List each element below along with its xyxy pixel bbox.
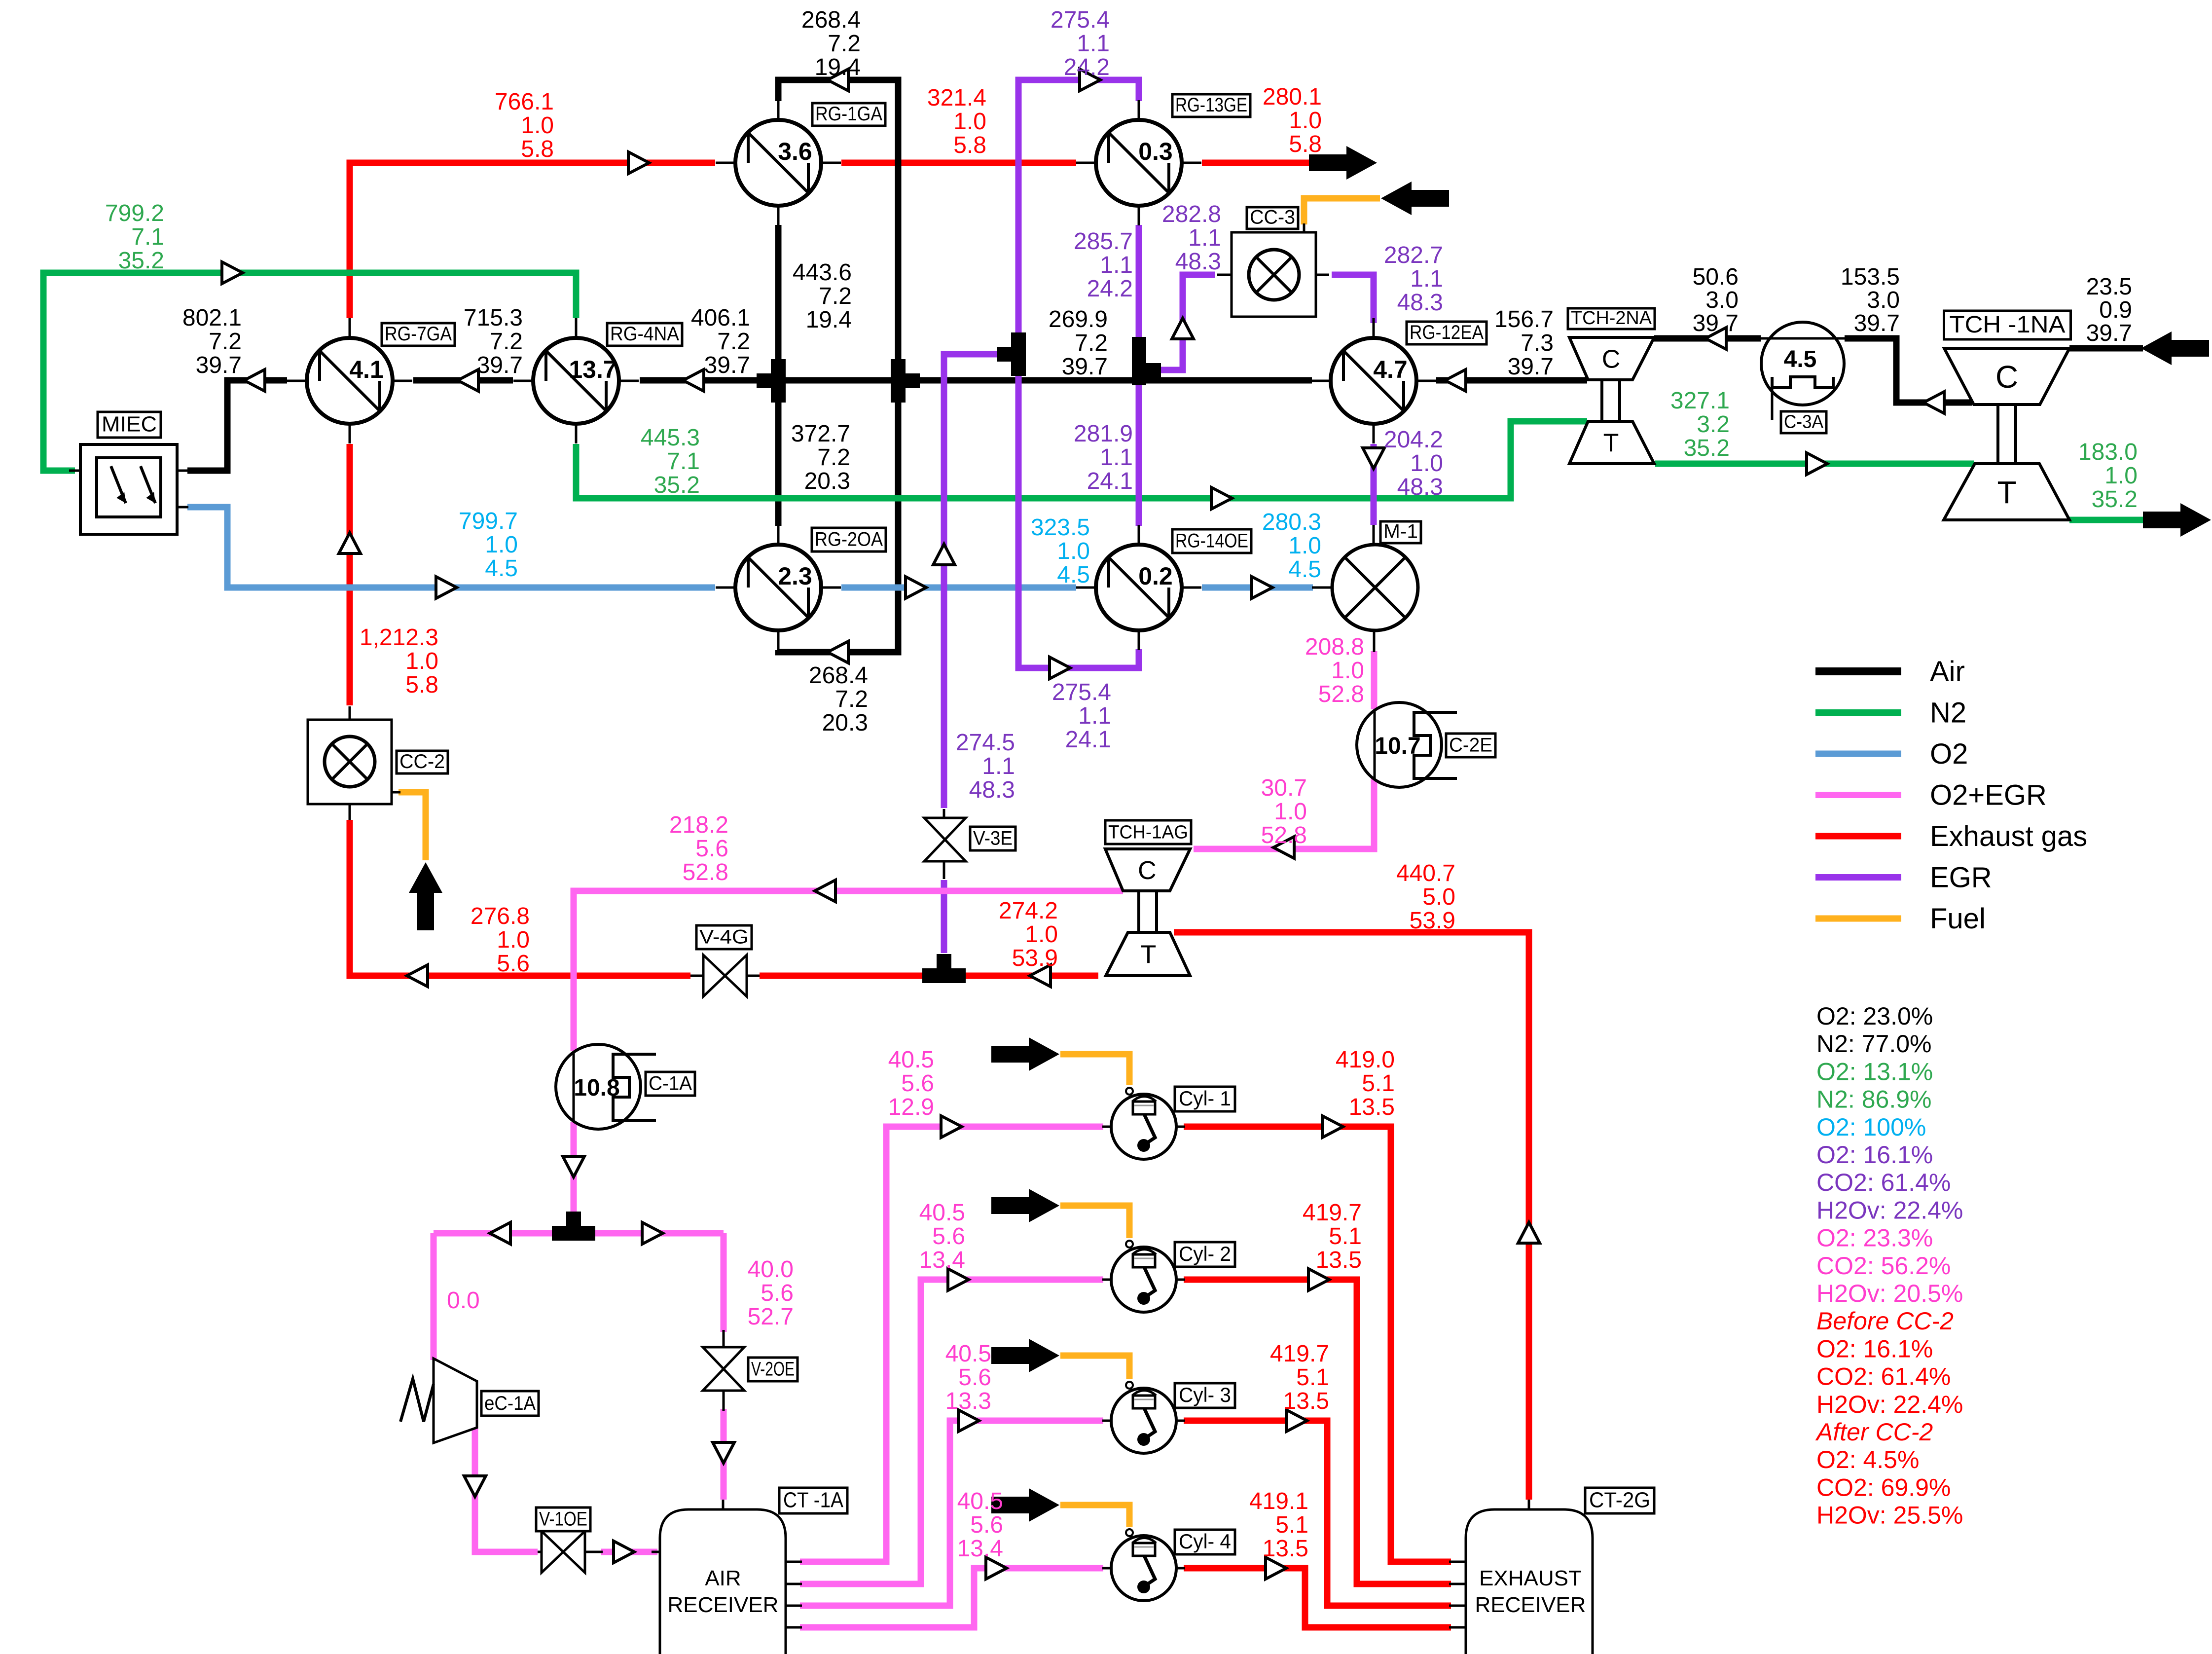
svg-text:TCH-1AG: TCH-1AG bbox=[1108, 822, 1188, 843]
svg-text:N2: 86.9%: N2: 86.9% bbox=[1816, 1086, 1931, 1113]
svg-text:RG-7GA: RG-7GA bbox=[385, 323, 452, 345]
svg-text:Cyl- 4: Cyl- 4 bbox=[1179, 1530, 1231, 1553]
svg-text:0.3: 0.3 bbox=[1138, 138, 1173, 165]
svg-text:RG-2OA: RG-2OA bbox=[815, 528, 883, 550]
svg-text:Before CC-2: Before CC-2 bbox=[1816, 1307, 1954, 1335]
svg-text:EGR: EGR bbox=[1930, 862, 1992, 894]
svg-text:0.0: 0.0 bbox=[447, 1287, 480, 1314]
svg-text:M-1: M-1 bbox=[1383, 520, 1418, 542]
svg-text:Cyl- 2: Cyl- 2 bbox=[1179, 1242, 1231, 1265]
svg-text:O2: 16.1%: O2: 16.1% bbox=[1816, 1141, 1933, 1169]
svg-text:C: C bbox=[1602, 345, 1621, 374]
svg-text:CO2: 56.2%: CO2: 56.2% bbox=[1816, 1252, 1951, 1280]
svg-text:V-4G: V-4G bbox=[699, 926, 749, 948]
svg-text:CO2: 61.4%: CO2: 61.4% bbox=[1816, 1363, 1951, 1391]
svg-text:RECEIVER: RECEIVER bbox=[668, 1593, 779, 1617]
svg-text:RG-1GA: RG-1GA bbox=[815, 103, 882, 125]
svg-text:H2Ov: 22.4%: H2Ov: 22.4% bbox=[1816, 1391, 1963, 1418]
svg-text:V-1OE: V-1OE bbox=[539, 1508, 587, 1530]
svg-text:EXHAUST: EXHAUST bbox=[1479, 1566, 1582, 1590]
svg-text:TCH-2NA: TCH-2NA bbox=[1571, 308, 1652, 329]
svg-text:0.2: 0.2 bbox=[1138, 562, 1173, 590]
svg-text:C: C bbox=[1138, 856, 1157, 885]
svg-text:13.7: 13.7 bbox=[569, 356, 616, 383]
svg-text:N2: N2 bbox=[1930, 697, 1966, 729]
svg-text:CT-2G: CT-2G bbox=[1589, 1488, 1650, 1512]
svg-text:H2Ov: 20.5%: H2Ov: 20.5% bbox=[1816, 1280, 1963, 1307]
svg-text:Cyl- 1: Cyl- 1 bbox=[1179, 1087, 1231, 1110]
svg-text:O2: 23.0%: O2: 23.0% bbox=[1816, 1002, 1933, 1030]
svg-text:After CC-2: After CC-2 bbox=[1815, 1418, 1933, 1446]
svg-text:MIEC: MIEC bbox=[102, 412, 157, 437]
svg-text:T: T bbox=[1603, 429, 1619, 458]
svg-text:V-2OE: V-2OE bbox=[751, 1358, 795, 1380]
svg-text:O2+EGR: O2+EGR bbox=[1930, 779, 2047, 811]
svg-text:10.8: 10.8 bbox=[574, 1075, 619, 1101]
svg-text:RG-12EA: RG-12EA bbox=[1410, 322, 1484, 343]
svg-text:Fuel: Fuel bbox=[1930, 903, 1986, 935]
svg-text:O2: 16.1%: O2: 16.1% bbox=[1816, 1335, 1933, 1362]
svg-text:4.7: 4.7 bbox=[1373, 356, 1408, 383]
svg-text:AIR: AIR bbox=[705, 1566, 741, 1590]
svg-text:O2: 23.3%: O2: 23.3% bbox=[1816, 1224, 1933, 1252]
svg-text:H2Ov: 22.4%: H2Ov: 22.4% bbox=[1816, 1196, 1963, 1224]
svg-text:RG-4NA: RG-4NA bbox=[610, 323, 679, 345]
svg-text:CT -1A: CT -1A bbox=[783, 1488, 844, 1512]
svg-text:Exhaust gas: Exhaust gas bbox=[1930, 820, 2087, 852]
svg-text:T: T bbox=[1997, 475, 2016, 510]
svg-text:CO2: 61.4%: CO2: 61.4% bbox=[1816, 1169, 1951, 1196]
svg-text:O2: 4.5%: O2: 4.5% bbox=[1816, 1446, 1919, 1473]
svg-text:RECEIVER: RECEIVER bbox=[1475, 1593, 1586, 1617]
svg-text:C-3A: C-3A bbox=[1784, 411, 1824, 432]
svg-text:10.7: 10.7 bbox=[1375, 733, 1420, 759]
svg-text:C: C bbox=[1995, 359, 2018, 395]
svg-text:RG-14OE: RG-14OE bbox=[1175, 530, 1248, 551]
svg-text:RG-13GE: RG-13GE bbox=[1175, 94, 1247, 116]
svg-text:C-1A: C-1A bbox=[649, 1072, 692, 1094]
svg-text:4.5: 4.5 bbox=[1784, 346, 1817, 372]
svg-text:O2: O2 bbox=[1930, 738, 1968, 770]
svg-text:3.6: 3.6 bbox=[778, 138, 812, 165]
svg-text:CC-2: CC-2 bbox=[399, 751, 445, 772]
svg-text:CC-3: CC-3 bbox=[1250, 206, 1295, 228]
svg-text:H2Ov: 25.5%: H2Ov: 25.5% bbox=[1816, 1502, 1963, 1529]
svg-text:Cyl- 3: Cyl- 3 bbox=[1179, 1383, 1231, 1406]
svg-text:O2: 100%: O2: 100% bbox=[1816, 1113, 1926, 1141]
svg-text:4.1: 4.1 bbox=[349, 356, 384, 383]
svg-text:TCH -1NA: TCH -1NA bbox=[1950, 312, 2066, 338]
svg-text:CO2: 69.9%: CO2: 69.9% bbox=[1816, 1473, 1951, 1501]
svg-text:Air: Air bbox=[1930, 656, 1965, 688]
svg-text:V-3E: V-3E bbox=[973, 827, 1013, 849]
svg-text:C-2E: C-2E bbox=[1449, 734, 1492, 756]
svg-text:O2: 13.1%: O2: 13.1% bbox=[1816, 1058, 1933, 1085]
svg-text:eC-1A: eC-1A bbox=[484, 1393, 536, 1414]
svg-text:T: T bbox=[1141, 941, 1157, 969]
svg-text:2.3: 2.3 bbox=[778, 562, 812, 590]
svg-text:N2: 77.0%: N2: 77.0% bbox=[1816, 1030, 1931, 1058]
